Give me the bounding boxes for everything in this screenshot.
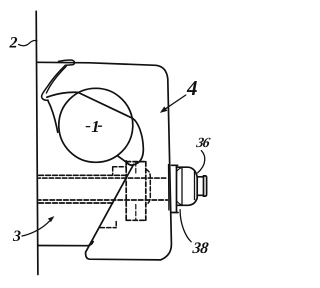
hidden slot line upper [39, 174, 126, 176]
dash left of centre mark [86, 126, 89, 128]
svg-text:3: 3 [12, 228, 21, 245]
nut right facet line [194, 171, 196, 199]
svg-text:2: 2 [9, 34, 18, 51]
nut 38 outline [177, 167, 198, 205]
hidden bolt head left face [125, 161, 127, 221]
upper clamp finger: tab top with rounded knob [59, 60, 75, 65]
leader curve for label 3 [22, 221, 50, 236]
hidden bolt shank lower line [39, 199, 168, 201]
bolt tip bottom [197, 194, 203, 196]
bolt tip face line [203, 176, 205, 196]
washer plate bottom cap [172, 212, 178, 214]
bracket 4 outline (rounded plate with diagonal bend) [38, 62, 172, 260]
svg-text:36: 36 [194, 135, 212, 151]
hidden bolt head top [126, 161, 146, 163]
hidden head chamfer collar [146, 169, 151, 204]
washer plate top cap [172, 164, 178, 166]
upper clamp finger: inner diagonal [46, 66, 66, 93]
nut chamfer arc top-left [177, 167, 183, 171]
spring strap across roll, down to lower curl hook [47, 92, 143, 165]
leader line for label 4 [162, 95, 186, 111]
bracket wall inner thickness line at washer [168, 165, 170, 211]
hidden head facet line bottom [135, 205, 137, 221]
finger edge descending to circle left side [48, 100, 58, 132]
hidden head facet line top [135, 162, 137, 174]
nut chamfer arc bottom-left [176, 201, 182, 206]
svg-text:38: 38 [191, 240, 210, 257]
leader squiggle for label 2 [19, 41, 37, 46]
svg-text:1: 1 [91, 117, 100, 136]
hidden bolt head bottom [126, 219, 146, 221]
arrowhead of leader 3 [48, 216, 55, 222]
wall 2 (vertical mounting surface) [36, 11, 38, 274]
leader for label 36 [198, 151, 205, 173]
hidden bolt head right face [145, 162, 147, 221]
hidden neck step upper [113, 167, 127, 175]
hidden bolt shank upper line [39, 177, 168, 179]
dash right of centre mark [98, 125, 101, 127]
roll / rod, reference -1- [59, 88, 133, 162]
hidden neck step lower [100, 222, 116, 228]
leader for label 38 [180, 210, 191, 242]
washer plate right edge [176, 165, 178, 212]
svg-text:4: 4 [186, 76, 198, 100]
arrowhead of leader 4 [160, 106, 168, 113]
hidden slot line lower [39, 202, 113, 204]
bolt tip end cap [204, 176, 207, 196]
nut facet line [181, 167, 183, 205]
bolt 36 protruding tip top [197, 176, 203, 178]
upper clamp finger: outer diagonal and bottom curl [42, 65, 66, 100]
bottom edge of flat plate portion [38, 242, 93, 246]
